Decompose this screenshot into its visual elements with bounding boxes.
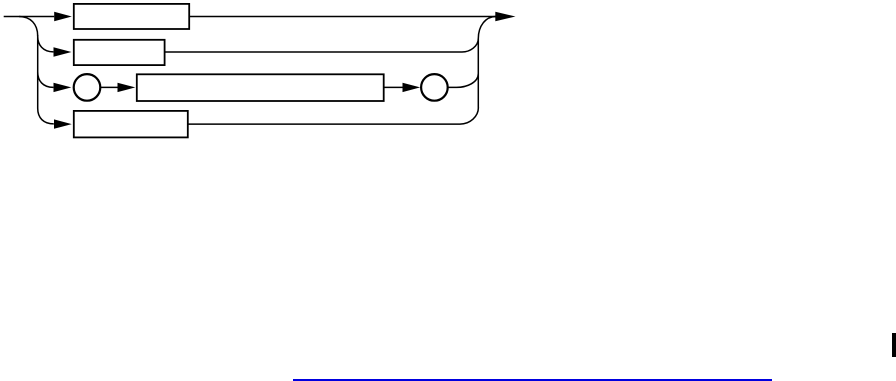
wire entry bend down to left vertical <box>19 17 38 37</box>
wire left vertical <box>37 35 39 109</box>
wire collector top bend to exit <box>478 17 496 39</box>
wire branch 4 to collector <box>188 123 460 125</box>
wire circle 1 to arrow <box>100 86 118 88</box>
arrow branch 2 <box>54 47 72 56</box>
wire right collector vertical <box>477 39 479 108</box>
arrow branch 4 <box>54 119 72 128</box>
arrow circle1 to box 3 <box>118 83 136 92</box>
arrow branch 1 <box>54 12 72 21</box>
box 1 <box>74 4 189 29</box>
terminal circle 1 <box>74 74 101 101</box>
wire box 3 to arrow <box>384 86 403 88</box>
arrow box 3 to circle 2 <box>403 83 421 92</box>
box 3 <box>137 74 384 101</box>
terminal circle 2 <box>421 74 448 101</box>
wire split to branch 3 <box>38 72 54 87</box>
wire entry top line <box>4 16 55 18</box>
wire branch 3 merge bend up <box>448 74 479 88</box>
wire branch 2 merge bend up <box>462 39 478 53</box>
wire bottom bend to branch 4 <box>38 108 54 124</box>
arrow branch 3 <box>54 83 72 92</box>
wire branch 2 to collector <box>165 51 462 53</box>
wire branch 1 to exit <box>189 16 496 18</box>
arrow exit <box>495 12 515 21</box>
clipped black glyph at right edge <box>892 333 896 357</box>
hyperlink underline (blue) <box>293 379 772 381</box>
box 4 <box>74 111 188 137</box>
wire split to branch 2 <box>38 36 54 52</box>
box 2 <box>74 40 165 65</box>
wire branch 4 merge bend up <box>460 108 478 125</box>
